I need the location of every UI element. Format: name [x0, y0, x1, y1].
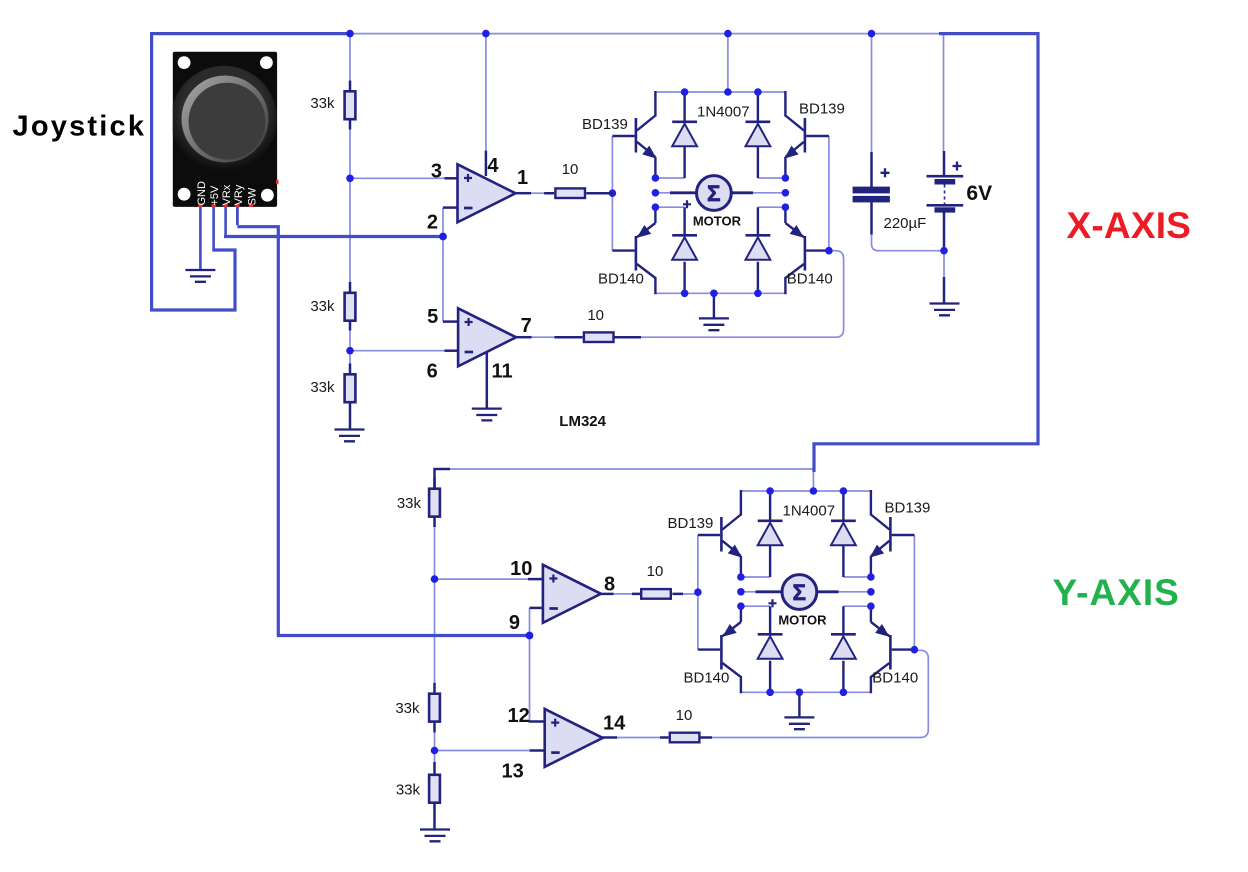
svg-text:BD140: BD140 [787, 271, 833, 288]
knob top [189, 83, 266, 160]
wire: op4 output link [616, 737, 661, 739]
stub: op2 + input [443, 320, 459, 323]
svg-text:1: 1 [517, 167, 528, 189]
node 2 (VRx junction) [439, 233, 447, 241]
op-amp U1:A pins 3,2,1,4 [458, 164, 516, 222]
mounting holes [178, 56, 191, 69]
wire: pin9/pin12 net vertical [529, 608, 531, 722]
motor plus mark [683, 200, 691, 208]
lead: battery bottom lead through junction to ground [943, 212, 946, 303]
stub: op4 output [602, 736, 617, 739]
transistor Q2 BD139 top-right [785, 91, 829, 178]
resistor R5 10 (op2 output) [584, 332, 614, 342]
svg-text:X-AXIS: X-AXIS [1067, 205, 1192, 246]
wire: node 3 horizontal to op-amp U1 + [350, 177, 446, 179]
node 6 (33k divider tap) [346, 347, 354, 355]
svg-text:10: 10 [587, 307, 604, 324]
op-amp U1:C pins 10,9,8 [543, 565, 601, 623]
svg-text:33k: 33k [397, 495, 422, 512]
lead: R10-2 leads [555, 336, 642, 339]
wire: battery bottom light segment [943, 251, 945, 277]
svg-text:1N4007: 1N4007 [697, 104, 750, 121]
ground joystick GND [185, 270, 215, 282]
stub: op2 - input [445, 349, 460, 352]
wire: GND pin stub [199, 207, 202, 270]
stub: op3 + input [528, 578, 544, 581]
wire: right base vertical [828, 136, 830, 251]
svg-text:BD139: BD139 [799, 101, 845, 118]
svg-text:7: 7 [521, 315, 532, 337]
stub: op4 + input [529, 720, 546, 723]
wire: left base vertical [611, 136, 613, 251]
svg-text:MOTOR: MOTOR [693, 214, 742, 229]
svg-text:10: 10 [562, 161, 579, 178]
lead: R10-3 leads [632, 593, 683, 596]
wire: op2 route to right transistor base [641, 251, 844, 338]
wire: node 6 horizontal to op-amp U2 - [350, 350, 446, 352]
ground op2 pin 11 [472, 409, 502, 421]
junction dots of bridge [609, 88, 833, 297]
resistor R7 33k (Y mid) [429, 694, 440, 722]
ground [713, 293, 715, 318]
node 10 (Y divider tap) [431, 575, 439, 583]
wire: capacitor branch [871, 34, 873, 152]
wire: +5V pin stub [212, 207, 215, 252]
wire: op3 output link [613, 593, 634, 595]
wire: supply rail to Y axis [814, 34, 1038, 472]
resistor R1 33k (X top) [345, 91, 356, 119]
stub: op3 - input [530, 607, 545, 610]
resistor R9 10 (op3 output) [641, 589, 671, 599]
wire: X 33k chain vertical [349, 34, 351, 430]
svg-text:3: 3 [431, 161, 442, 183]
lead: R10-1 leads [544, 192, 613, 195]
diode D3 bottom-left [683, 207, 685, 293]
lead: Y 33k chain top corner stub [433, 469, 450, 488]
node battery/cap junction [940, 247, 948, 255]
svg-text:BD139: BD139 [582, 116, 628, 133]
svg-text:5: 5 [427, 306, 438, 328]
svg-text:13: 13 [502, 761, 524, 783]
wire: VRx pin stub [224, 207, 227, 235]
ground X 33k chain [335, 430, 365, 442]
wire: X bridge supply stub [727, 34, 729, 92]
wire: node 10 horizontal to op-amp U3 + [435, 578, 529, 580]
wire: op1 output link [531, 192, 545, 194]
wire: pin2 net vertical [442, 208, 444, 322]
svg-text:+5V: +5V [209, 185, 221, 206]
diode D2 top-right [757, 92, 759, 178]
stub: op3 output [601, 593, 614, 596]
pin labels [196, 181, 259, 206]
svg-text:GND: GND [196, 181, 208, 206]
svg-text:10: 10 [647, 563, 664, 580]
wire: node 13 horizontal to op-amp U4 - [435, 750, 532, 752]
svg-text:33k: 33k [310, 298, 335, 315]
stub: op4 - input [530, 749, 546, 752]
op-amp U1:D pins 12,13,14 [545, 709, 603, 767]
svg-text:8: 8 [604, 574, 615, 596]
svg-text:14: 14 [603, 713, 626, 735]
svg-text:VRy: VRy [233, 184, 245, 205]
resistor R6 33k (Y top) [429, 489, 440, 517]
wire: Y supply horizontal to 33k chain [435, 468, 814, 470]
lead: Y 33k chain resistor leads [433, 478, 436, 830]
node top rail at 33k chain [346, 30, 354, 38]
pin pads red [198, 180, 278, 207]
ground battery [930, 304, 960, 316]
svg-text:10: 10 [676, 707, 693, 724]
op-amp U1:B pins 5,6,7,11 [458, 308, 516, 366]
svg-text:10: 10 [510, 558, 532, 580]
wire: top rail dark left segment [152, 34, 350, 310]
svg-text:33k: 33k [395, 700, 420, 717]
svg-text:11: 11 [492, 360, 513, 382]
wire: node stubs light [655, 178, 785, 207]
wire: Y 33k chain vertical [434, 469, 436, 828]
svg-text:2: 2 [427, 211, 438, 233]
svg-text:Y-AXIS: Y-AXIS [1053, 572, 1180, 613]
ground Y 33k chain [420, 830, 450, 842]
wire: capacitor to battery junction [872, 234, 945, 251]
svg-text:6V: 6V [966, 182, 992, 205]
svg-text:220µF: 220µF [884, 215, 927, 232]
svg-text:Σ: Σ [707, 181, 721, 206]
wire: pin4 supply drop [485, 34, 487, 151]
wire: op3 resistor to bridge [683, 593, 698, 595]
node top rail at pin4 [482, 30, 490, 38]
wire: VRy net to pin 9 junction [237, 227, 529, 636]
diode D1 top-left [683, 92, 685, 178]
resistor R4 10 (op1 output) [555, 188, 585, 198]
wire: op4 route to right transistor base [699, 650, 928, 737]
svg-text:LM324: LM324 [559, 413, 606, 430]
svg-text:33k: 33k [310, 379, 335, 396]
stub: op1 + input [445, 177, 459, 180]
node top rail at bridge supply [724, 30, 732, 38]
transistor Q4 BD140 bottom-right [785, 207, 829, 294]
stub: op2 output [516, 336, 532, 339]
resistor R10 10 (op4 output) [670, 733, 700, 743]
lead: X 33k chain resistor leads [349, 81, 352, 430]
wire: VRx net to pin 2 junction [224, 235, 443, 238]
wire: Y bridge supply stub [812, 469, 814, 491]
stub: op1 pin4 [485, 151, 488, 176]
wire: bridge bottom rail [655, 292, 785, 294]
joystick board [173, 52, 277, 207]
resistor R3 33k (X bottom) [345, 374, 356, 402]
svg-text:Joystick: Joystick [13, 111, 147, 143]
stub: op1 output [516, 192, 532, 195]
wire: top supply rail light part [350, 33, 939, 35]
svg-text:33k: 33k [310, 95, 335, 112]
node 9 (VRy junction) [526, 632, 534, 640]
svg-text:4: 4 [487, 155, 499, 177]
svg-text:BD140: BD140 [598, 271, 644, 288]
wire: VRy pin stub [236, 207, 239, 225]
svg-text:6: 6 [427, 360, 438, 382]
stub: op2 pin11 to ground [486, 352, 489, 409]
wire: bridge top rail [655, 91, 785, 93]
lead: R10-4 leads [660, 736, 712, 739]
lead: battery top lead [943, 151, 946, 176]
node top rail at capacitor [868, 30, 876, 38]
resistor R8 33k (Y bottom) [429, 775, 440, 803]
stub: op1 - input [443, 206, 459, 209]
wire: op2 output link [531, 336, 557, 338]
joystick cap [171, 66, 277, 172]
node 13 (Y divider tap) [431, 747, 439, 755]
svg-text:9: 9 [509, 612, 520, 634]
svg-text:12: 12 [508, 705, 530, 727]
transistor Q3 BD140 bottom-left [612, 207, 655, 294]
lead: capacitor leads [870, 152, 873, 235]
resistor R2 33k (X mid) [345, 293, 356, 321]
svg-text:SW: SW [247, 187, 259, 205]
node 3 (33k divider tap) [346, 175, 354, 183]
wire: battery top branch [943, 34, 945, 151]
diode D4 bottom-right [757, 207, 759, 293]
svg-text:VRx: VRx [221, 184, 233, 205]
gray collar [182, 76, 269, 163]
motor M [670, 191, 753, 194]
svg-text:33k: 33k [396, 782, 421, 799]
transistor Q1 BD139 top-left [612, 91, 655, 178]
